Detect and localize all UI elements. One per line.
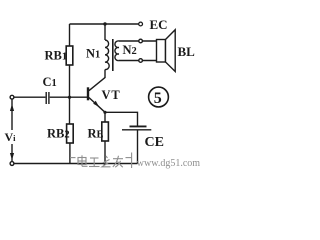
speaker BL bbox=[157, 30, 176, 72]
terminal on N2 bottom wire bbox=[139, 59, 143, 63]
capacitor CE bbox=[122, 126, 151, 163]
svg-text:N1: N1 bbox=[86, 47, 100, 61]
wire C1 to base bbox=[50, 96, 87, 98]
input arrow up bbox=[10, 104, 14, 111]
svg-text:RB2: RB2 bbox=[47, 127, 70, 141]
input arrow down bbox=[10, 153, 14, 160]
terminal EC bbox=[139, 22, 143, 26]
terminal on N2 top wire bbox=[139, 39, 143, 43]
resistor RB1 bbox=[66, 24, 73, 97]
svg-text:5: 5 bbox=[154, 90, 162, 107]
resistor RB2 bbox=[67, 97, 74, 163]
transformer core bbox=[112, 39, 114, 71]
wire input left upper segment bbox=[11, 99, 13, 130]
svg-text:RE: RE bbox=[88, 127, 104, 141]
wire N2 top to speaker bbox=[119, 40, 157, 42]
wire N2 bottom to speaker bbox=[119, 60, 157, 62]
junction node emitter bbox=[103, 111, 106, 114]
watermark 电工之友 bbox=[70, 153, 132, 169]
svg-text:Vi: Vi bbox=[5, 130, 17, 144]
svg-text:RB1: RB1 bbox=[45, 49, 68, 63]
wire bottom rail bbox=[14, 163, 138, 165]
svg-text:www.dg51.com: www.dg51.com bbox=[137, 158, 200, 169]
svg-text:N2: N2 bbox=[123, 43, 137, 57]
junction node top rail / N1 top bbox=[103, 22, 106, 25]
svg-text:VT: VT bbox=[102, 88, 121, 102]
watermark separator bar bbox=[131, 153, 133, 169]
svg-text:CE: CE bbox=[145, 135, 164, 150]
junction node base / RB1 / RB2 bbox=[68, 96, 71, 99]
junction node bottom rail / RE bbox=[103, 162, 106, 165]
svg-text:C1: C1 bbox=[43, 75, 57, 89]
transformer N1 primary winding bbox=[105, 24, 109, 78]
figure number 5 circled bbox=[149, 87, 169, 107]
capacitor C1 bbox=[46, 92, 49, 104]
wire emitter to CE bbox=[105, 112, 138, 125]
transformer N2 secondary winding bbox=[115, 41, 119, 61]
input terminal bottom bbox=[10, 162, 14, 166]
wire top rail EC bbox=[70, 23, 139, 25]
svg-text:EC: EC bbox=[150, 17, 168, 32]
transistor VT bbox=[87, 78, 105, 113]
resistor RE bbox=[102, 112, 109, 163]
input terminal top bbox=[10, 95, 14, 99]
wire input terminal to C1 bbox=[14, 96, 46, 98]
svg-text:BL: BL bbox=[178, 44, 196, 59]
wire input left lower segment bbox=[11, 144, 13, 161]
